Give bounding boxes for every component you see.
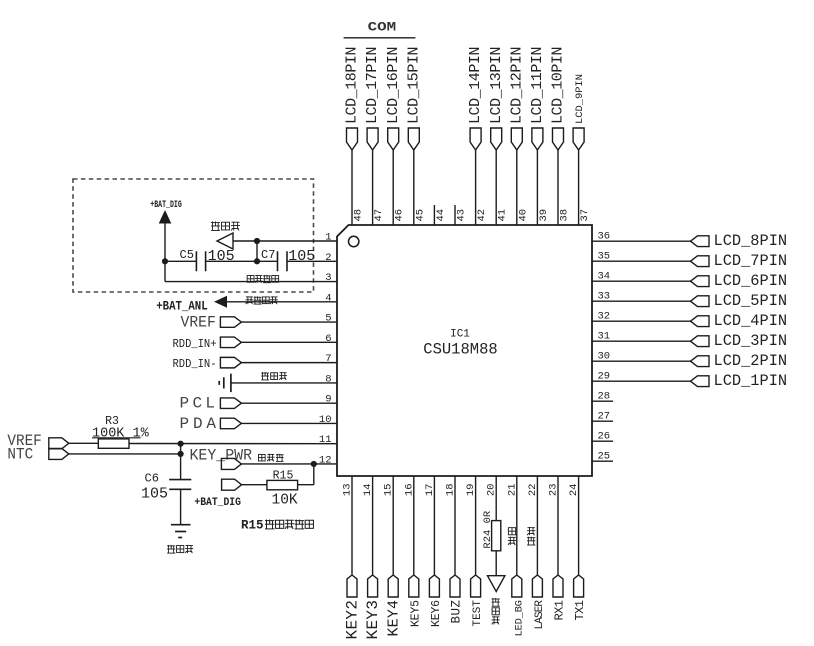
- svg-text:44: 44: [435, 209, 447, 222]
- wire NTC: [69, 453, 181, 455]
- svg-text:KEY4: KEY4: [386, 600, 403, 637]
- connector NTC (left): [49, 448, 69, 459]
- svg-text:VREF: VREF: [181, 314, 216, 332]
- svg-text:21: 21: [506, 484, 518, 497]
- wire pin 1: [233, 240, 337, 242]
- wire pin 42: [475, 150, 477, 225]
- svg-text:9: 9: [325, 394, 331, 406]
- connector LCD_13PIN: [491, 128, 502, 150]
- svg-text:6: 6: [325, 333, 331, 345]
- connector LCD_6PIN: [691, 276, 710, 287]
- wire pin 16: [413, 476, 415, 575]
- capacitor C6: [169, 479, 191, 481]
- connector PDA: [220, 418, 241, 429]
- wire pin 31: [592, 340, 691, 342]
- connector PCL: [220, 398, 241, 409]
- wire pin 20 upper: [495, 476, 497, 521]
- svg-text:37: 37: [579, 209, 591, 222]
- junction R3/C6: [178, 441, 184, 447]
- svg-text:28: 28: [598, 391, 611, 403]
- wire +BAT_DIG to R15: [242, 484, 267, 486]
- wire pin 29: [592, 380, 691, 382]
- svg-text:PDA: PDA: [180, 415, 217, 433]
- IC IC1 body (CSU18M88 QFP-48 outline): [337, 225, 592, 476]
- connector LCD_3PIN: [691, 336, 710, 347]
- wire pin 36: [592, 240, 691, 242]
- svg-text:LCD_6PIN: LCD_6PIN: [714, 272, 788, 290]
- connector BUZ: [450, 575, 460, 597]
- svg-text:LCD_8PIN: LCD_8PIN: [714, 232, 788, 250]
- connector LCD_16PIN: [388, 128, 399, 150]
- svg-text:42: 42: [476, 209, 488, 222]
- connector LCD_4PIN: [691, 316, 710, 327]
- connector RDD_IN+: [220, 337, 241, 348]
- connector LED_BG: [512, 575, 522, 597]
- svg-text:LCD_10PIN: LCD_10PIN: [550, 47, 567, 125]
- svg-text:25: 25: [598, 451, 611, 463]
- svg-text:40: 40: [517, 209, 529, 222]
- wire pin 25 stub: [592, 460, 613, 462]
- svg-text:47: 47: [373, 209, 385, 222]
- wire pin 40: [516, 150, 518, 225]
- svg-text:LCD_11PIN: LCD_11PIN: [529, 47, 546, 125]
- svg-text:22: 22: [527, 484, 539, 497]
- svg-text:RX1: RX1: [553, 600, 567, 621]
- wire pin 45: [413, 150, 415, 225]
- svg-text:+BAT_ANL: +BAT_ANL: [156, 300, 208, 314]
- wire pin 48: [351, 150, 353, 225]
- svg-text:30: 30: [598, 351, 611, 363]
- wire pin 4: [227, 301, 337, 303]
- svg-text:+BAT_DIG: +BAT_DIG: [150, 199, 182, 211]
- connector KEY4: [388, 575, 398, 597]
- svg-text:45: 45: [414, 209, 426, 222]
- connector LCD_8PIN: [691, 236, 710, 247]
- wire pin 30: [592, 360, 691, 362]
- svg-text:46: 46: [394, 209, 406, 222]
- svg-text:LCD_17PIN: LCD_17PIN: [364, 47, 381, 125]
- wire pin 9: [241, 402, 337, 404]
- svg-text:LCD_4PIN: LCD_4PIN: [714, 312, 788, 330]
- annotation laser (hanzi col): [527, 527, 534, 529]
- capacitor C5: [195, 251, 197, 271]
- svg-text:27: 27: [598, 411, 611, 423]
- svg-text:12: 12: [319, 454, 332, 466]
- svg-text:41: 41: [497, 209, 509, 222]
- connector RDD_IN-: [220, 357, 241, 368]
- wire pin 3: [165, 281, 337, 283]
- svg-text:4: 4: [325, 292, 331, 304]
- svg-text:R15: R15: [241, 519, 264, 533]
- svg-text:48: 48: [353, 209, 365, 222]
- junction NTC/C6: [178, 451, 184, 457]
- svg-text:LCD_14PIN: LCD_14PIN: [467, 47, 484, 125]
- junction R15/pin12: [311, 461, 317, 467]
- svg-text:5: 5: [325, 313, 331, 325]
- svg-text:C6: C6: [145, 472, 159, 486]
- ground symbol (digital, triangle): [488, 576, 505, 592]
- connector LCD_12PIN: [511, 128, 522, 150]
- svg-text:33: 33: [598, 291, 611, 303]
- svg-text:26: 26: [598, 431, 611, 443]
- wire pin 44 stub: [433, 205, 435, 225]
- connector LCD_7PIN: [691, 256, 710, 267]
- connector VREF (left): [49, 438, 69, 449]
- connector LCD_17PIN: [367, 128, 378, 150]
- svg-text:LED_BG: LED_BG: [513, 600, 525, 637]
- resistor R15: [267, 480, 298, 489]
- wire pin 8: [232, 382, 338, 384]
- svg-text:29: 29: [598, 371, 611, 383]
- svg-text:43: 43: [456, 209, 468, 222]
- net label power-key (hanzi): [258, 454, 265, 461]
- svg-text:TX1: TX1: [573, 600, 587, 621]
- svg-text:3: 3: [325, 272, 331, 284]
- svg-text:13: 13: [342, 484, 354, 497]
- resistor R24: [492, 521, 501, 551]
- svg-text:19: 19: [465, 484, 477, 497]
- connector KEY2: [347, 575, 357, 597]
- svg-text:10: 10: [319, 414, 332, 426]
- wire R3 to pin11: [129, 443, 337, 445]
- svg-text:KEY3: KEY3: [364, 600, 382, 640]
- svg-text:NTC: NTC: [7, 445, 33, 463]
- wire pin 18: [454, 476, 456, 575]
- svg-text:R15: R15: [273, 469, 294, 482]
- svg-text:RDD_IN-: RDD_IN-: [173, 357, 217, 371]
- wire R15 to junction: [298, 484, 314, 486]
- svg-text:C5: C5: [180, 248, 194, 262]
- wire pin 10: [241, 422, 337, 424]
- wire pin 33: [592, 300, 691, 302]
- wire pin 21: [516, 476, 518, 575]
- net label analog-ground (hanzi): [261, 372, 269, 374]
- svg-text:KEY6: KEY6: [430, 600, 443, 627]
- net label digital-ground (hanzi): [211, 222, 220, 224]
- svg-text:105: 105: [141, 486, 168, 503]
- annotation backlight (hanzi col): [508, 528, 515, 535]
- svg-text:LCD_5PIN: LCD_5PIN: [714, 292, 788, 310]
- connector KEY3: [368, 575, 378, 597]
- svg-text:105: 105: [288, 248, 315, 265]
- svg-text:8: 8: [325, 373, 331, 385]
- svg-text:34: 34: [598, 271, 611, 283]
- svg-text:32: 32: [598, 311, 611, 323]
- pin-1 indicator circle: [349, 236, 359, 246]
- wire pin 6: [241, 341, 337, 343]
- wire pin 14: [372, 476, 374, 575]
- connector LCD_15PIN: [408, 128, 419, 150]
- svg-text:KEY2: KEY2: [344, 600, 362, 640]
- wire pin 39: [536, 150, 538, 225]
- svg-text:LCD_2PIN: LCD_2PIN: [714, 352, 788, 370]
- wire pin 26 stub: [592, 440, 613, 442]
- svg-text:LCD_12PIN: LCD_12PIN: [508, 47, 525, 125]
- wire C5 left lead: [165, 260, 196, 262]
- wire pin 34: [592, 280, 691, 282]
- svg-text:17: 17: [424, 484, 436, 497]
- svg-text:KEY5: KEY5: [409, 600, 422, 627]
- svg-text:LCD_9PIN: LCD_9PIN: [574, 74, 586, 124]
- wire C6 to ground: [180, 489, 182, 524]
- wire pin 43 stub: [454, 205, 456, 225]
- connector +BAT_DIG (R15): [222, 479, 242, 490]
- svg-text:LCD_18PIN: LCD_18PIN: [344, 47, 361, 125]
- connector LCD_1PIN: [691, 376, 710, 387]
- wire pin 27 stub: [592, 420, 613, 422]
- svg-text:LCD_3PIN: LCD_3PIN: [714, 332, 788, 350]
- svg-text:LCD_7PIN: LCD_7PIN: [714, 252, 788, 270]
- svg-text:BUZ: BUZ: [450, 600, 464, 624]
- wire pin 41: [495, 150, 497, 225]
- wire pin 32: [592, 320, 691, 322]
- wire C5-C7: [206, 260, 278, 262]
- svg-text:LCD_15PIN: LCD_15PIN: [405, 47, 422, 125]
- connector LASER: [532, 575, 542, 597]
- wire pin 47: [372, 150, 374, 225]
- svg-text:23: 23: [548, 484, 560, 497]
- resistor R3: [98, 439, 129, 448]
- junction on pin2 wire: [254, 258, 260, 264]
- wire pin 13: [351, 476, 353, 575]
- svg-text:C7: C7: [261, 248, 275, 262]
- svg-text:20: 20: [486, 484, 498, 497]
- svg-text:105: 105: [208, 248, 235, 265]
- junction pin1/pin2 link: [254, 238, 260, 244]
- wire pin 12: [241, 463, 337, 465]
- ground symbol analog (bars, rotated): [230, 374, 232, 392]
- svg-text:LCD_13PIN: LCD_13PIN: [488, 47, 505, 125]
- connector LCD_18PIN: [347, 128, 358, 150]
- svg-text:39: 39: [538, 209, 550, 222]
- svg-text:R24 0R: R24 0R: [482, 510, 494, 549]
- svg-text:CSU18M88: CSU18M88: [423, 341, 497, 359]
- wire pin 28 stub: [592, 400, 613, 402]
- svg-text:36: 36: [598, 231, 611, 243]
- svg-text:TEST: TEST: [472, 600, 484, 627]
- connector LCD_9PIN: [573, 128, 584, 150]
- wire pin 37: [578, 150, 580, 225]
- svg-text:35: 35: [598, 251, 611, 263]
- wire VREF to R3: [69, 442, 99, 444]
- connector TX1: [574, 575, 584, 597]
- connector LCD_10PIN: [553, 128, 564, 150]
- dashed outline box: [73, 179, 314, 292]
- wire pin 22: [536, 476, 538, 575]
- svg-text:11: 11: [319, 434, 332, 446]
- svg-text:RDD_IN+: RDD_IN+: [173, 337, 217, 351]
- wire C6 vertical upper: [180, 444, 182, 480]
- svg-text:2: 2: [325, 252, 331, 264]
- svg-text:LASER: LASER: [534, 600, 546, 630]
- net label analog-power (hanzi): [246, 296, 253, 298]
- wire pin1-pin2 vertical: [256, 241, 258, 261]
- connector KEY5: [409, 575, 419, 597]
- connector KEY_PWR: [221, 458, 241, 469]
- net label analog-ground C6 (hanzi): [167, 545, 175, 547]
- wire +BAT_DIG vertical: [164, 224, 166, 282]
- svg-text:IC1: IC1: [450, 329, 470, 341]
- svg-text:16: 16: [403, 484, 415, 497]
- power +BAT_ANL arrow: [214, 296, 227, 308]
- svg-text:24: 24: [568, 484, 580, 497]
- svg-text:COM: COM: [368, 19, 397, 34]
- ground symbol digital (hollow triangle): [217, 233, 233, 249]
- wire pin 19: [475, 476, 477, 575]
- svg-text:31: 31: [598, 331, 611, 343]
- wire pin 23: [557, 476, 559, 575]
- svg-text:LCD_1PIN: LCD_1PIN: [714, 372, 788, 390]
- connector VREF: [220, 317, 241, 328]
- connector LCD_14PIN: [470, 128, 481, 150]
- wire pin 24: [578, 476, 580, 575]
- capacitor C7: [277, 251, 279, 271]
- wire pin 7: [241, 362, 337, 364]
- svg-text:15: 15: [383, 484, 395, 497]
- connector LCD_11PIN: [532, 128, 543, 150]
- value underline: [92, 437, 141, 439]
- power +BAT_DIG arrow: [159, 210, 172, 224]
- svg-text:LCD_16PIN: LCD_16PIN: [385, 47, 402, 125]
- net label digital-ground (hanzi column): [492, 598, 500, 600]
- connector KEY6: [429, 575, 439, 597]
- COM underline: [344, 37, 416, 39]
- svg-text:38: 38: [559, 209, 571, 222]
- net label digital-power (hanzi): [247, 276, 254, 283]
- wire pin 35: [592, 260, 691, 262]
- wire pin 17: [433, 476, 435, 575]
- wire pin 20 lower: [495, 551, 497, 576]
- svg-text:PCL: PCL: [180, 395, 216, 413]
- wire pin 46: [392, 150, 394, 225]
- svg-text:18: 18: [445, 484, 457, 497]
- wire pin 15: [392, 476, 394, 575]
- svg-text:10K: 10K: [272, 493, 298, 509]
- connector LCD_5PIN: [691, 296, 710, 307]
- svg-text:7: 7: [325, 353, 331, 365]
- junction +BAT_DIG/C5: [162, 258, 168, 264]
- wire pin 2: [287, 260, 337, 262]
- wire pin 5: [241, 321, 337, 323]
- svg-text:100K 1%: 100K 1%: [92, 426, 150, 441]
- svg-text:14: 14: [362, 484, 374, 497]
- ground symbol analog bars (C6): [171, 524, 191, 526]
- wire pin 38: [557, 150, 559, 225]
- connector TEST: [471, 575, 481, 597]
- connector LCD_2PIN: [691, 356, 710, 367]
- connector RX1: [553, 575, 563, 597]
- svg-text:+BAT_DIG: +BAT_DIG: [194, 497, 241, 509]
